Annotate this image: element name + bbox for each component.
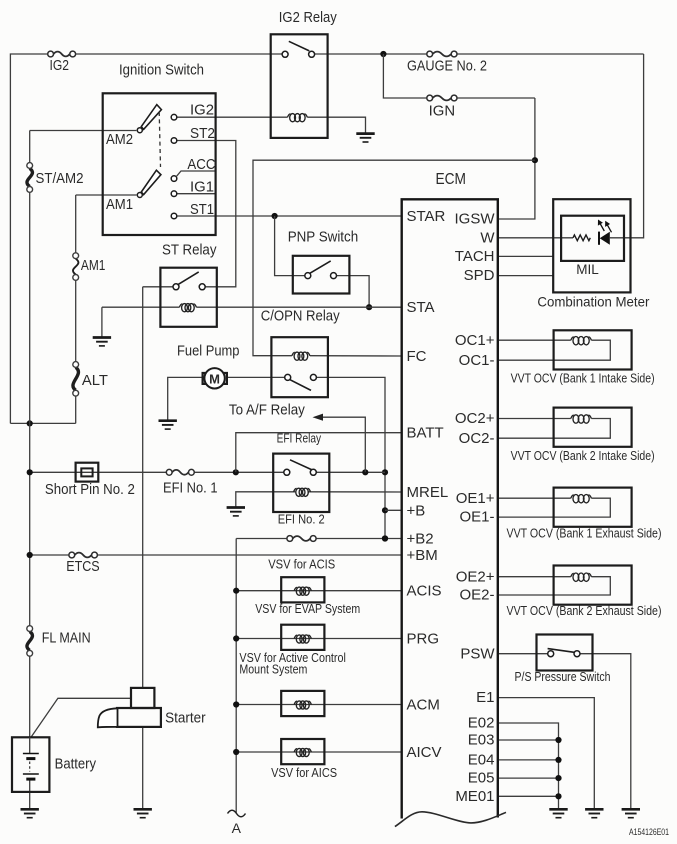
svg-text:OC2+: OC2+ — [455, 410, 495, 427]
svg-text:PSW: PSW — [460, 645, 495, 662]
svg-text:C/OPN Relay: C/OPN Relay — [261, 308, 340, 325]
svg-text:IG2: IG2 — [50, 57, 70, 74]
svg-text:FC: FC — [407, 348, 427, 365]
svg-text:To A/F Relay: To A/F Relay — [229, 402, 305, 419]
svg-text:EFI No. 2: EFI No. 2 — [278, 512, 325, 526]
svg-text:ACC: ACC — [187, 156, 215, 173]
svg-text:EFI No. 1: EFI No. 1 — [163, 480, 218, 497]
svg-text:OE2-: OE2- — [459, 587, 494, 604]
svg-text:ECM: ECM — [436, 171, 467, 188]
svg-text:EFI Relay: EFI Relay — [277, 431, 322, 445]
svg-text:STA: STA — [407, 299, 435, 316]
svg-text:OC1+: OC1+ — [455, 332, 495, 349]
svg-text:Combination Meter: Combination Meter — [537, 294, 649, 310]
svg-text:+B: +B — [407, 502, 426, 519]
svg-text:A154126E01: A154126E01 — [629, 827, 669, 837]
svg-text:MREL: MREL — [407, 484, 449, 501]
svg-text:ST/AM2: ST/AM2 — [36, 170, 84, 187]
svg-text:Starter: Starter — [165, 709, 206, 726]
svg-text:E1: E1 — [476, 689, 494, 706]
svg-text:IGSW: IGSW — [455, 211, 496, 228]
svg-text:ALT: ALT — [82, 372, 108, 389]
svg-text:FL MAIN: FL MAIN — [42, 630, 91, 647]
svg-text:+B2: +B2 — [407, 531, 434, 548]
svg-text:MIL: MIL — [576, 262, 599, 277]
svg-text:OE1+: OE1+ — [456, 490, 495, 507]
svg-text:IG1: IG1 — [190, 179, 214, 196]
svg-text:E05: E05 — [468, 770, 495, 787]
svg-text:+BM: +BM — [407, 547, 438, 564]
svg-text:E04: E04 — [468, 752, 495, 769]
svg-text:SPD: SPD — [464, 267, 495, 284]
svg-text:AM1: AM1 — [81, 257, 106, 274]
svg-text:IGN: IGN — [429, 103, 456, 120]
svg-text:BATT: BATT — [407, 425, 444, 442]
svg-text:AM1: AM1 — [106, 196, 133, 213]
svg-text:VVT OCV (Bank 2 Exhaust Side): VVT OCV (Bank 2 Exhaust Side) — [507, 604, 662, 618]
svg-text:OC1-: OC1- — [459, 352, 495, 369]
svg-text:OC2-: OC2- — [459, 430, 495, 447]
svg-text:ST Relay: ST Relay — [162, 242, 217, 259]
svg-text:STAR: STAR — [407, 208, 446, 225]
svg-text:M: M — [209, 371, 220, 386]
svg-text:E02: E02 — [468, 715, 495, 732]
svg-text:OE2+: OE2+ — [456, 568, 495, 585]
svg-text:VVT OCV (Bank 1 Intake Side): VVT OCV (Bank 1 Intake Side) — [511, 372, 655, 386]
svg-text:TACH: TACH — [455, 248, 495, 265]
svg-text:PNP Switch: PNP Switch — [288, 228, 359, 245]
svg-text:GAUGE No. 2: GAUGE No. 2 — [407, 58, 487, 75]
svg-text:VSV for EVAP System: VSV for EVAP System — [255, 602, 360, 616]
svg-text:E03: E03 — [468, 732, 495, 749]
svg-text:ACM: ACM — [407, 697, 440, 714]
svg-text:ST2: ST2 — [190, 125, 215, 142]
svg-text:Battery: Battery — [55, 756, 97, 773]
svg-text:VVT OCV (Bank 1 Exhaust Side): VVT OCV (Bank 1 Exhaust Side) — [507, 527, 662, 541]
svg-text:Mount System: Mount System — [239, 662, 307, 676]
svg-text:ME01: ME01 — [455, 788, 494, 805]
svg-text:IG2: IG2 — [190, 102, 214, 119]
svg-text:ETCS: ETCS — [66, 558, 100, 575]
svg-text:VSV for AICS: VSV for AICS — [271, 766, 337, 780]
svg-text:IG2 Relay: IG2 Relay — [279, 9, 337, 26]
svg-text:PRG: PRG — [407, 631, 440, 648]
svg-text:P/S Pressure Switch: P/S Pressure Switch — [515, 670, 611, 684]
svg-text:AM2: AM2 — [106, 131, 133, 148]
svg-text:W: W — [480, 229, 495, 246]
svg-text:Fuel Pump: Fuel Pump — [177, 343, 240, 360]
svg-text:OE1-: OE1- — [459, 509, 494, 526]
svg-text:A: A — [232, 820, 242, 836]
svg-text:ST1: ST1 — [190, 201, 214, 218]
svg-text:VSV for ACIS: VSV for ACIS — [268, 558, 335, 572]
svg-text:VVT OCV (Bank 2 Intake Side): VVT OCV (Bank 2 Intake Side) — [511, 449, 655, 463]
svg-text:Ignition Switch: Ignition Switch — [119, 62, 204, 79]
svg-text:AICV: AICV — [407, 744, 442, 761]
svg-text:ACIS: ACIS — [407, 583, 442, 600]
svg-text:Short Pin No. 2: Short Pin No. 2 — [45, 481, 135, 498]
